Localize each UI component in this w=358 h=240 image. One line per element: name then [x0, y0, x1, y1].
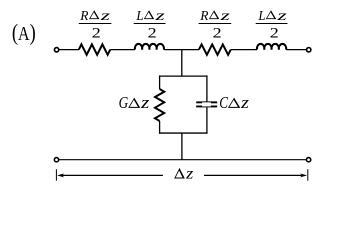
wire shunt left edge lower	[159, 121, 161, 134]
label R-delta-z over 2 for R1	[79, 9, 112, 42]
svg-text:z: z	[140, 93, 150, 112]
wire shunt right edge lower	[206, 107, 208, 133]
svg-text:R: R	[79, 9, 89, 24]
wire top rail segment 4	[231, 49, 257, 51]
svg-text:z: z	[276, 9, 288, 24]
svg-text:z: z	[240, 93, 250, 112]
resistor R2	[199, 44, 231, 54]
resistor G	[155, 89, 164, 121]
wire shunt left edge upper	[159, 75, 161, 89]
wire top rail segment 2	[110, 49, 135, 51]
svg-text:z: z	[185, 166, 194, 183]
label delta-z dimension	[174, 166, 194, 183]
inductor L1	[135, 44, 164, 50]
svg-text:C: C	[219, 93, 229, 112]
dimension right arrow	[204, 173, 307, 177]
dimension left arrow	[57, 173, 163, 177]
label G-delta-z	[119, 93, 151, 112]
terminal top-right	[307, 48, 311, 52]
wire shunt box top edge	[159, 75, 208, 77]
inductor L2	[257, 44, 286, 50]
svg-text:L: L	[257, 9, 265, 24]
wire top rail segment 5	[286, 49, 306, 51]
capacitor C plates	[196, 101, 217, 107]
label R-delta-z over 2 for R2	[199, 9, 232, 42]
svg-text:G: G	[119, 93, 129, 112]
svg-text:2: 2	[92, 25, 101, 41]
terminal top-left	[54, 48, 58, 52]
svg-text:R: R	[199, 9, 209, 24]
wire shunt box bottom edge	[159, 132, 208, 134]
svg-text:z: z	[219, 9, 231, 24]
terminal bottom-right	[306, 158, 310, 162]
wire top rail segment 1	[59, 49, 79, 51]
wire bottom stub	[181, 133, 183, 160]
svg-text:z: z	[99, 9, 111, 24]
wire top rail segment 3	[164, 49, 199, 51]
resistor R1	[79, 44, 110, 54]
svg-text:(A): (A)	[12, 20, 36, 46]
svg-text:2: 2	[148, 25, 157, 41]
terminal bottom-left	[54, 158, 58, 162]
svg-text:L: L	[135, 9, 143, 24]
svg-text:2: 2	[270, 25, 279, 41]
wire junction stub down	[181, 50, 183, 76]
label L-delta-z over 2 for L2	[256, 9, 288, 42]
wire bottom rail	[59, 159, 307, 161]
svg-text:z: z	[154, 9, 166, 24]
label C-delta-z	[219, 93, 250, 112]
svg-text:2: 2	[213, 25, 222, 41]
dimension right tick	[307, 169, 309, 181]
wire shunt right edge upper	[206, 75, 208, 101]
dimension left tick	[55, 169, 57, 181]
label L-delta-z over 2 for L1	[134, 9, 166, 42]
